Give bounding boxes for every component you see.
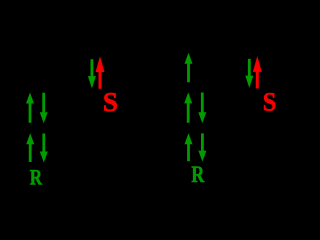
svg-text:S: S: [103, 87, 118, 117]
svg-text:R: R: [30, 166, 43, 185]
svg-text:S: S: [263, 87, 277, 117]
svg-text:R: R: [191, 161, 205, 185]
